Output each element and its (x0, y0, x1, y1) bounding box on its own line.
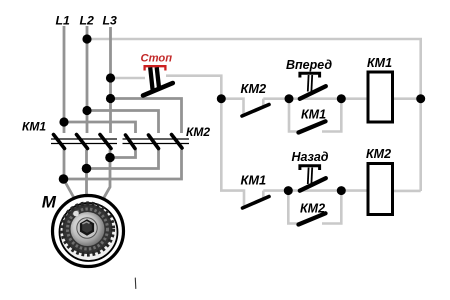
svg-text:КМ2: КМ2 (186, 125, 210, 139)
svg-text:КМ1: КМ1 (367, 56, 392, 70)
svg-text:M: M (42, 193, 57, 212)
svg-text:Назад: Назад (292, 150, 329, 164)
svg-text:L1: L1 (56, 13, 71, 27)
svg-text:КМ2: КМ2 (300, 201, 325, 215)
svg-text:КМ1: КМ1 (241, 172, 267, 187)
svg-text:Вперед: Вперед (286, 58, 332, 72)
svg-text:L3: L3 (103, 13, 118, 27)
svg-text:Стоп: Стоп (141, 52, 173, 64)
svg-text:КМ2: КМ2 (241, 81, 267, 96)
svg-text:КМ1: КМ1 (301, 107, 326, 121)
svg-text:КМ1: КМ1 (22, 119, 46, 133)
svg-text:КМ2: КМ2 (366, 147, 391, 161)
svg-text:L2: L2 (80, 13, 95, 27)
